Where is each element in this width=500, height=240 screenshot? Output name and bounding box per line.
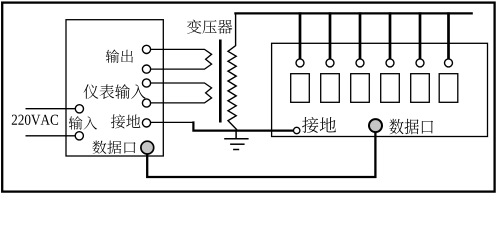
- label: data port 数据口 (right box): [389, 119, 433, 134]
- label: ground 接地 (left box): [111, 114, 141, 128]
- wire: top bus from transformer secondary to terminal drops: [234, 12, 472, 14]
- label: data port 数据口 (left box): [92, 141, 135, 154]
- wire: drop 6 from top bus: [447, 12, 450, 59]
- wire: 220VAC line to lower input terminal: [26, 135, 76, 137]
- wire: data link between the two data ports: [147, 132, 375, 177]
- label: ground 接地 (right box): [302, 117, 336, 133]
- fuse/terminal block rectangle 4: [381, 74, 400, 103]
- data port connector (left box, gray): [141, 141, 154, 154]
- terminal circle: ground terminal (left box): [142, 119, 150, 127]
- wire: drop 4 from top bus: [389, 12, 392, 59]
- label: instrument input 仪表输入: [84, 84, 146, 99]
- terminal circle 5 on right unit: [416, 59, 424, 67]
- fuse/terminal block rectangle 2: [321, 74, 340, 103]
- wire: drop 1 from top bus: [299, 12, 302, 59]
- terminal circle: output b (left box): [142, 65, 150, 73]
- wire: drop 3 from top bus: [359, 12, 362, 59]
- ground stud circle on right box: [294, 127, 300, 133]
- terminal circle 2 on right unit: [326, 59, 334, 67]
- terminal circle: instrument input b (left box): [142, 99, 150, 107]
- fuse/terminal block rectangle 3: [351, 74, 370, 103]
- wire: drop 2 from top bus: [329, 12, 332, 59]
- terminal circle 4 on right unit: [386, 59, 394, 67]
- left device box (power supply unit): [66, 20, 163, 156]
- transformer T1 secondary winding (vertical zigzag): [228, 13, 237, 130]
- fuse/terminal block rectangle 5: [411, 74, 430, 103]
- outer border frame: [2, 3, 494, 192]
- label: 220VAC: [12, 115, 58, 125]
- transformer T1 core: [219, 40, 222, 123]
- ground symbol: [224, 131, 248, 150]
- terminal circle: instrument input a (left box): [142, 79, 150, 87]
- fuse/terminal block rectangle 1: [291, 74, 310, 103]
- terminal circle: input a (left box): [75, 105, 83, 113]
- wire: 220VAC line to upper input terminal: [26, 108, 76, 110]
- terminal circle 6 on right unit: [445, 59, 453, 67]
- fuse/terminal block rectangle 6: [439, 74, 458, 103]
- wire: drop 5 from top bus: [419, 12, 422, 59]
- wire: ground link from left box terminal: [150, 121, 194, 123]
- label: transformer 变压器: [187, 19, 232, 33]
- terminal circle: output a (left box): [142, 45, 150, 53]
- terminal circle: input b (left box): [75, 132, 83, 140]
- terminal circle 3 on right unit: [356, 59, 364, 67]
- data port connector (right box, gray): [369, 119, 382, 132]
- transformer T1 primary winding 1 (from output terminals): [151, 49, 212, 69]
- right device box (terminal unit): [272, 43, 488, 136]
- label: output 输出: [106, 50, 133, 63]
- transformer T1 primary winding 2 (from instrument-input terminals): [151, 83, 212, 103]
- wire: thick ground bus to right box: [193, 121, 293, 130]
- terminal circle 1 on right unit: [296, 59, 304, 67]
- label: input 输入: [69, 116, 97, 129]
